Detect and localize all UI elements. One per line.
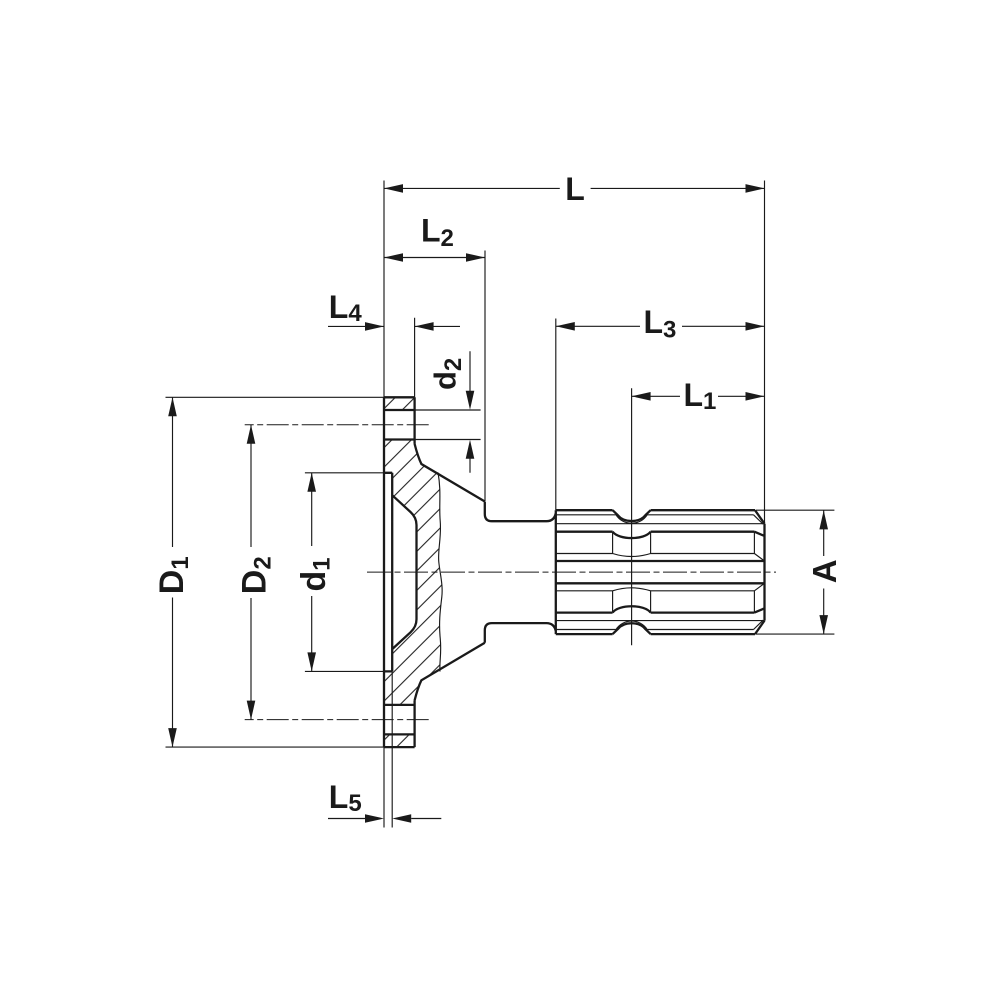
svg-text:L: L: [565, 171, 585, 207]
svg-text:A: A: [806, 559, 843, 583]
